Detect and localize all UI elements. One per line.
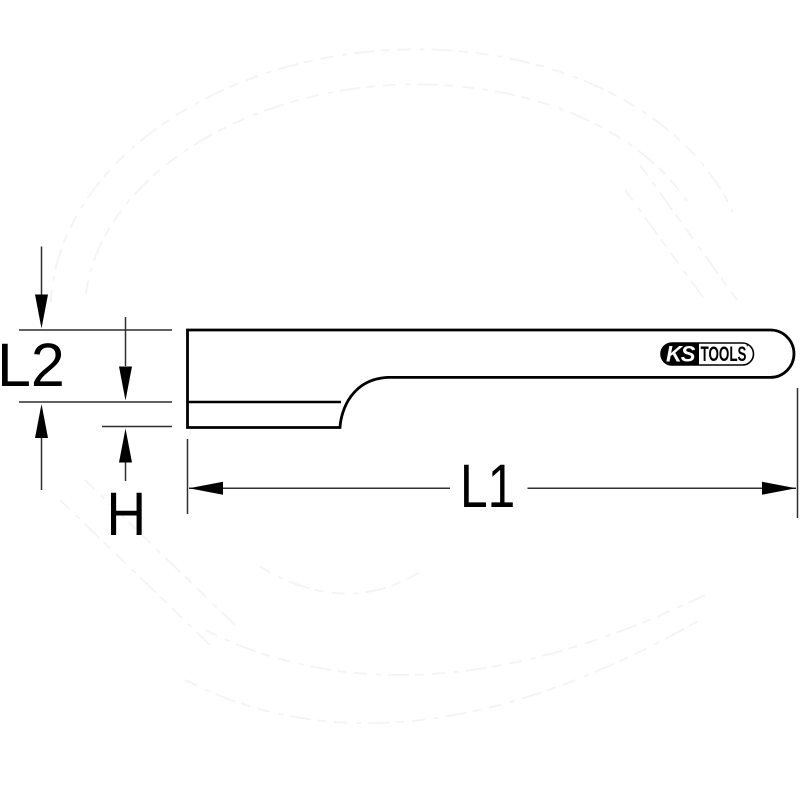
logo KS black field xyxy=(661,343,699,365)
L2 top down arrow xyxy=(35,295,48,329)
L1 dimension line left segment xyxy=(189,487,450,489)
H lower arrow stem xyxy=(125,462,127,481)
svg-text:H: H xyxy=(107,480,147,548)
label L1 xyxy=(460,452,515,520)
tool inner step line xyxy=(188,401,342,403)
svg-text:TOOLS: TOOLS xyxy=(701,342,747,366)
dimension labels group xyxy=(0,331,515,549)
svg-text:L1: L1 xyxy=(460,452,515,520)
L1 left arrow xyxy=(189,482,223,495)
L1 right extension line xyxy=(797,388,799,518)
arrowheads xyxy=(35,295,796,495)
KS TOOLS logo xyxy=(661,342,754,367)
svg-text:': ' xyxy=(746,342,749,354)
H upper arrow stem xyxy=(125,317,127,366)
extension line L2 top xyxy=(19,329,172,331)
L2 bottom up arrow xyxy=(35,404,48,438)
tool body outline xyxy=(188,330,794,428)
L1 right arrow xyxy=(762,482,796,495)
L1 dimension line right segment xyxy=(528,487,797,489)
logo TOOLS letters xyxy=(701,342,747,366)
H bottom up arrow xyxy=(119,429,132,463)
L2 upper arrow stem xyxy=(41,247,43,297)
dimension lines group xyxy=(19,247,798,519)
logo stadium outline xyxy=(661,343,754,365)
svg-text:L2: L2 xyxy=(0,331,65,399)
extension line L2 bottom / H top xyxy=(19,401,172,403)
H top down arrow xyxy=(119,367,132,401)
label H xyxy=(107,480,147,548)
L1 left extension line xyxy=(187,439,189,514)
extension line H bottom xyxy=(102,426,172,428)
svg-text:KS: KS xyxy=(666,342,696,367)
watermark arcs xyxy=(35,27,737,723)
L2 lower arrow stem xyxy=(41,437,43,490)
